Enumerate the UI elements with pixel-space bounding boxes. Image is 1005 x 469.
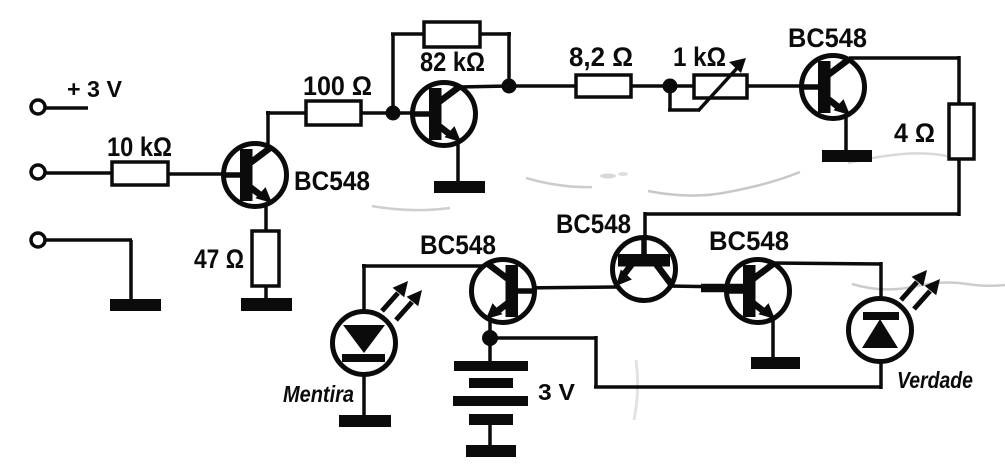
svg-text:8,2 Ω: 8,2 Ω <box>569 42 633 72</box>
svg-text:BC548: BC548 <box>788 23 867 53</box>
svg-text:Mentira: Mentira <box>283 381 354 407</box>
svg-text:+ 3 V: + 3 V <box>67 76 123 102</box>
svg-text:BC548: BC548 <box>420 230 496 260</box>
svg-text:4 Ω: 4 Ω <box>894 118 935 148</box>
svg-text:47 Ω: 47 Ω <box>194 244 244 274</box>
svg-text:Verdade: Verdade <box>897 367 973 393</box>
svg-text:100 Ω: 100 Ω <box>303 71 372 101</box>
svg-text:1 kΩ: 1 kΩ <box>673 42 726 72</box>
svg-text:3 V: 3 V <box>538 379 576 405</box>
svg-text:BC548: BC548 <box>556 209 631 239</box>
svg-text:82 kΩ: 82 kΩ <box>420 47 485 77</box>
svg-text:BC548: BC548 <box>709 226 789 256</box>
svg-text:10 kΩ: 10 kΩ <box>107 132 172 162</box>
svg-text:BC548: BC548 <box>294 166 370 196</box>
